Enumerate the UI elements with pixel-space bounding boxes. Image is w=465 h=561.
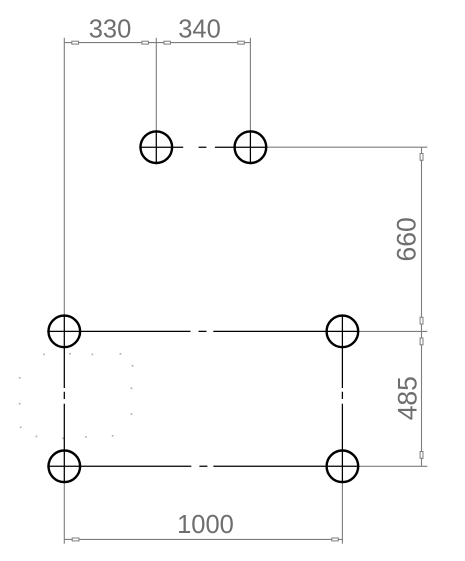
extension line x=64.3 (from mid-left hole up to 330 dim) xyxy=(63,38,65,315)
box arrow 340 left xyxy=(164,41,171,44)
dimension line 660/485 xyxy=(421,147,423,466)
watermark dot xyxy=(36,436,38,438)
extension line from mid-right hole to right xyxy=(359,330,427,332)
box arrow 330 left xyxy=(72,41,79,44)
centerline top row horizontal (dash-dot between top holes) xyxy=(139,146,267,148)
extension line x=156.3 (from top-left hole up) xyxy=(155,38,157,130)
watermark dot xyxy=(131,388,133,390)
extension line below bottom-right hole xyxy=(341,483,343,543)
center mark vertical top-left hole xyxy=(155,130,157,164)
watermark dot xyxy=(92,354,94,356)
center mark vertical top-right hole xyxy=(249,130,251,164)
watermark dot xyxy=(20,427,22,429)
centerline middle row horizontal xyxy=(47,330,359,332)
watermark dot xyxy=(62,438,64,440)
watermark dot xyxy=(131,413,133,415)
watermark dot xyxy=(19,403,21,405)
watermark dot xyxy=(120,353,122,355)
box arrow 660 top xyxy=(420,154,423,161)
hole circle bottom-right xyxy=(327,451,359,483)
box arrow 485 top xyxy=(420,338,423,345)
watermark dot xyxy=(132,365,134,367)
dimension line 330/340 xyxy=(64,42,250,44)
extension line from bottom-right hole to right xyxy=(359,465,427,467)
svg-text:1000: 1000 xyxy=(177,511,234,539)
box arrow 485 bottom xyxy=(420,452,423,459)
box arrow 660 bottom xyxy=(420,317,423,324)
watermark dot xyxy=(69,353,71,355)
box arrow 1000 left xyxy=(72,538,79,541)
watermark dot xyxy=(85,436,87,438)
centerline left column vertical (dash-dot between left holes) xyxy=(63,314,65,483)
extension line from top-right hole to right xyxy=(267,146,427,148)
box arrow 1000 right xyxy=(332,538,339,541)
centerline bottom row horizontal xyxy=(47,465,359,467)
watermark dot xyxy=(112,435,114,437)
watermark dot xyxy=(19,377,21,379)
hole circle top-right xyxy=(235,131,267,163)
box arrow 330 right xyxy=(142,41,149,44)
hole circle top-left xyxy=(141,131,173,163)
extension line below bottom-left hole xyxy=(63,483,65,543)
centerline right column vertical (dash-dot between right holes) xyxy=(341,314,343,483)
hole circle bottom-left xyxy=(49,451,81,483)
svg-text:660: 660 xyxy=(391,217,421,261)
extension line x=250.4 (from top-right hole up) xyxy=(249,38,251,130)
svg-text:340: 340 xyxy=(178,16,221,44)
watermark dot xyxy=(43,354,45,356)
box arrow 340 right xyxy=(238,41,245,44)
hole circle mid-left xyxy=(49,316,81,348)
hole circle mid-right xyxy=(327,316,359,348)
dimension line 1000 xyxy=(64,538,342,540)
svg-text:485: 485 xyxy=(392,376,422,420)
svg-text:330: 330 xyxy=(89,16,132,44)
